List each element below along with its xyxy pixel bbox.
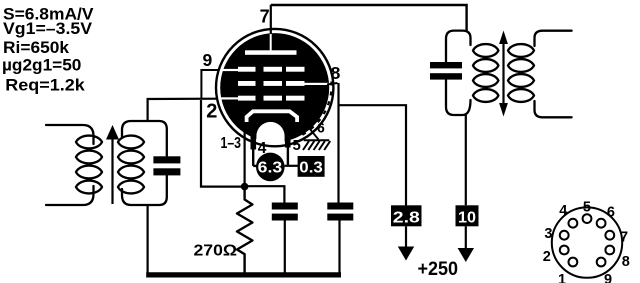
anode plate (245, 33, 297, 55)
current label 10 (456, 205, 479, 226)
wire anode pin7 (270, 5, 272, 34)
ground bus (146, 272, 341, 277)
wire cathode down (244, 130, 246, 187)
wire junction to C2 (245, 186, 285, 202)
svg-text:6.3: 6.3 (258, 159, 283, 176)
grid row g3 (221, 67, 305, 72)
svg-text:6: 6 (607, 205, 615, 221)
heater value 6.3 (256, 153, 285, 182)
grid row g2 (238, 81, 329, 86)
grid row g1 (221, 96, 305, 101)
heater hole white (256, 122, 284, 154)
wire anode to T2 top (271, 5, 467, 32)
transformer T2 coupling arrow (499, 31, 508, 117)
capacitor C2 (272, 203, 298, 221)
wire 10 arrow (458, 226, 474, 262)
socket base outline (552, 207, 622, 277)
wire 2.8 arrow (398, 226, 414, 260)
svg-text:9: 9 (203, 50, 213, 70)
svg-text:Ri=650k: Ri=650k (3, 38, 70, 57)
socket pin 3 (560, 231, 569, 240)
transformer T2 secondary winding (508, 31, 572, 118)
capacitor C3 (327, 203, 353, 221)
svg-text:7: 7 (260, 7, 270, 27)
wire pin6 pointer (303, 120, 319, 140)
svg-text:3: 3 (544, 226, 552, 242)
wire 6.3 to 0.3 (285, 165, 298, 167)
svg-text:1–3: 1–3 (221, 135, 242, 152)
cathode (247, 111, 298, 122)
heater leg pin4 (253, 148, 258, 166)
wire C2 to bus (284, 221, 286, 273)
svg-text:2: 2 (206, 100, 217, 122)
wire grid node down (201, 100, 245, 187)
tube V1 outline (216, 29, 333, 146)
svg-text:+250: +250 (418, 259, 459, 280)
heater leg pin5 (287, 146, 289, 166)
junction node (241, 183, 249, 191)
svg-text:2: 2 (543, 249, 551, 265)
wire T1 secondary bottom to bus (147, 204, 149, 273)
transformer T1 coupling arrow (106, 125, 119, 204)
resistor R1 270 ohm (237, 190, 252, 273)
svg-text:7: 7 (620, 229, 628, 245)
capacitor C4 (430, 62, 462, 80)
socket pin 4 (569, 219, 578, 228)
svg-text:4: 4 (559, 203, 567, 219)
tube V1 envelope (220, 33, 329, 142)
wire pin8 lead (327, 83, 338, 85)
wire screen vertical (337, 83, 339, 203)
socket pin 6 (597, 219, 606, 228)
svg-text:9: 9 (604, 272, 612, 283)
wire T2 bottom to 10 (465, 115, 467, 205)
wire grid lead horizontal (147, 98, 218, 101)
svg-text:1: 1 (558, 272, 566, 283)
socket pin 5 (583, 214, 592, 223)
socket pin 1 (569, 258, 578, 267)
wire T1 secondary top to grid node (147, 98, 149, 122)
svg-text:Vg1=–3.5V: Vg1=–3.5V (3, 19, 93, 38)
svg-text:10: 10 (458, 209, 476, 226)
socket pin 8 (605, 246, 614, 255)
wire screen branch to 2.8 (339, 105, 407, 205)
transformer T2 primary winding (446, 31, 498, 115)
heater arch (253, 119, 287, 150)
svg-text:6: 6 (317, 119, 325, 135)
svg-text:2.8: 2.8 (393, 209, 420, 226)
svg-text:270Ω: 270Ω (194, 243, 238, 260)
grid bracket pin9 (201, 70, 219, 99)
wire C3 to bus (338, 221, 340, 273)
heater value 0.3 (298, 156, 325, 177)
chassis ground hatching (303, 140, 330, 150)
transformer T1 primary winding (46, 125, 102, 205)
current label 2.8 (391, 205, 422, 226)
svg-text:µg2g1=50: µg2g1=50 (2, 56, 81, 75)
svg-text:5: 5 (293, 137, 301, 154)
svg-text:8: 8 (622, 254, 630, 270)
svg-text:Req=1.2k: Req=1.2k (5, 76, 85, 95)
svg-text:5: 5 (583, 200, 591, 216)
svg-text:8: 8 (331, 63, 341, 83)
socket pin 2 (560, 246, 569, 255)
socket pin 9 (597, 258, 606, 267)
socket pin 7 (605, 231, 614, 240)
internal shield dashed arc pin6 (298, 82, 332, 138)
transformer T1 secondary winding (118, 121, 167, 205)
svg-text:0.3: 0.3 (299, 159, 323, 176)
capacitor C1 tuning (153, 156, 180, 175)
